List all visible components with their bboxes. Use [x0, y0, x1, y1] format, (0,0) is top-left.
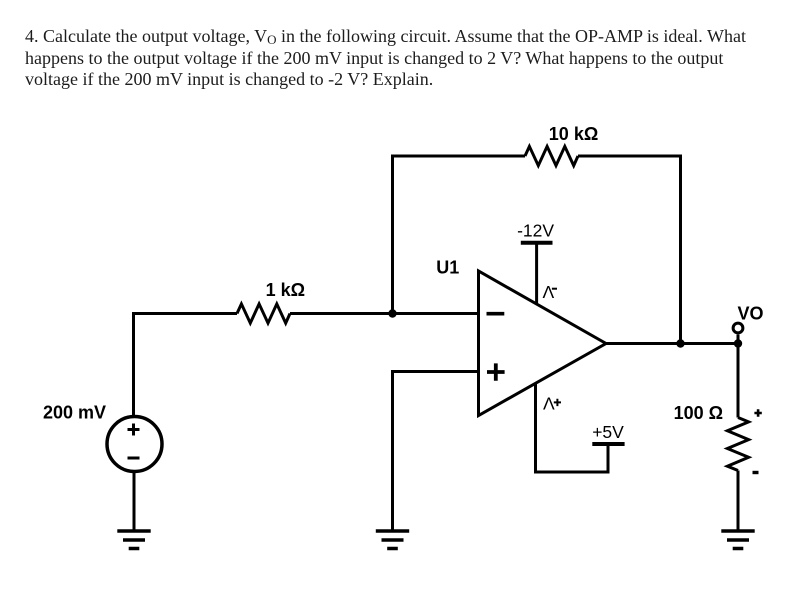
- svg-text:Λ: Λ: [543, 393, 555, 413]
- negative supply -12V stem and bar: [535, 243, 538, 304]
- wire source top to input node: [134, 314, 238, 418]
- wire source bottom to ground: [133, 472, 136, 532]
- wire output node down to R3: [737, 344, 740, 418]
- wire R3 to ground: [737, 471, 740, 532]
- svg-text:Λ: Λ: [543, 282, 555, 302]
- polarity minus at R3 bottom: [753, 471, 759, 474]
- voltage source V1 200 mV: [107, 417, 162, 472]
- +5V supply bar: [592, 442, 624, 446]
- wire non-inverting input to ground: [393, 372, 479, 532]
- op-amp U1 triangle: [479, 271, 607, 416]
- positive supply wire from op-amp bottom: [536, 383, 609, 472]
- svg-text:100 Ω: 100 Ω: [674, 403, 723, 423]
- svg-text:VO: VO: [738, 304, 764, 324]
- node dot at output terminal: [734, 339, 742, 347]
- resistor R1 1 kOhm: [237, 304, 290, 323]
- svg-text:1 kΩ: 1 kΩ: [266, 280, 305, 300]
- junction dot feedback-output: [676, 339, 684, 347]
- resistor R2 10 kOhm: [525, 146, 578, 165]
- ground (middle): [376, 531, 409, 549]
- svg-text:10 kΩ: 10 kΩ: [549, 124, 598, 144]
- svg-text:200 mV: 200 mV: [43, 403, 106, 423]
- op-amp non-inverting input plus sign: [487, 363, 505, 380]
- svg-text:-12V: -12V: [517, 221, 554, 241]
- wire op-amp output: [606, 342, 738, 345]
- terminal VO open circle: [737, 335, 740, 344]
- svg-text:+5V: +5V: [592, 422, 624, 442]
- op-amp inverting input minus sign: [487, 312, 505, 316]
- wire feedback up and to R2: [393, 156, 526, 314]
- ground (right): [721, 531, 754, 549]
- svg-text:U1: U1: [436, 258, 459, 278]
- wire R2 to output node: [578, 156, 681, 344]
- wire R1 to inverting input: [290, 312, 479, 315]
- resistor R3 100 Ohm (vertical): [727, 418, 748, 471]
- ground (left): [117, 531, 150, 549]
- node junction at inverting input: [388, 309, 396, 317]
- polarity plus at R3 top: [754, 409, 761, 416]
